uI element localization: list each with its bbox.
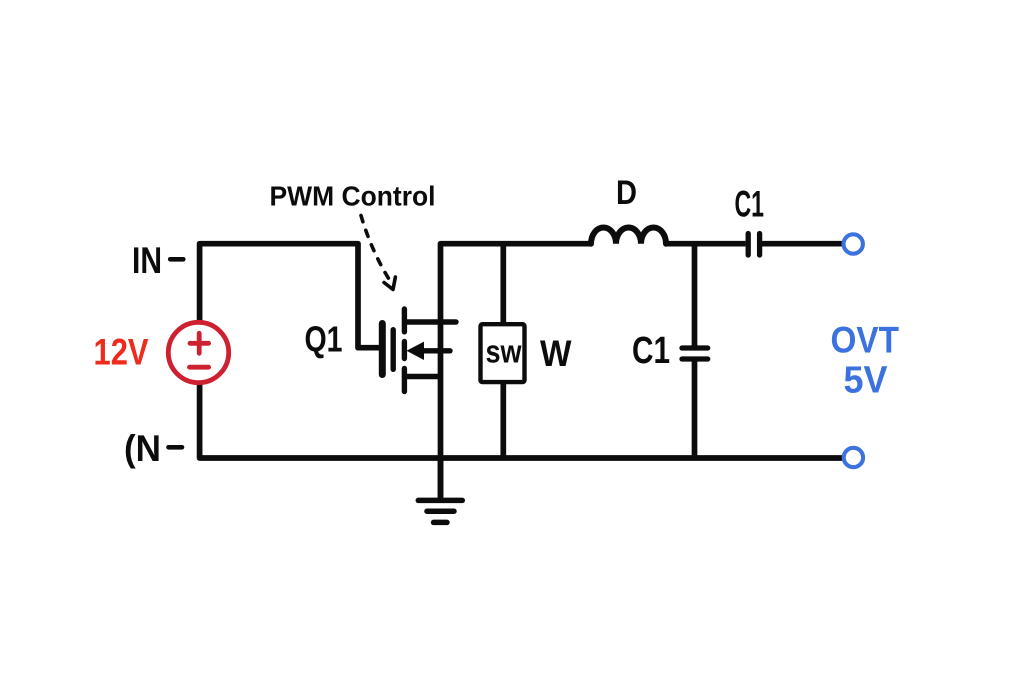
Q1 drain lead bbox=[406, 319, 456, 324]
wire SW branch top bbox=[500, 244, 506, 323]
wire shunt cap bottom bbox=[692, 361, 698, 458]
voltage source V1 bbox=[168, 322, 228, 382]
svg-text:Q1: Q1 bbox=[305, 319, 343, 360]
Q1 channel segment middle bbox=[402, 342, 407, 359]
wire shunt cap top bbox=[692, 244, 698, 346]
GN dash bbox=[169, 445, 183, 450]
svg-text:(N: (N bbox=[124, 428, 161, 469]
Q1 body lead bbox=[420, 348, 450, 353]
Q1 body arrowhead bbox=[407, 342, 425, 360]
Q1 source lead bbox=[406, 374, 438, 379]
svg-text:C1: C1 bbox=[632, 330, 670, 372]
PWM dashed arrow bbox=[361, 216, 390, 281]
Q1 channel segment top bbox=[402, 309, 407, 332]
wire source bottom + bottom rail bbox=[200, 383, 843, 458]
ground bbox=[418, 500, 462, 522]
capacitor C1 shunt (output filter) bbox=[682, 348, 708, 359]
inductor D bbox=[591, 228, 666, 244]
switch SW box bbox=[481, 324, 525, 382]
output terminal top bbox=[844, 234, 863, 253]
Q1 gate plate bbox=[391, 330, 396, 370]
plus sign bbox=[190, 333, 209, 353]
wire SW branch bottom bbox=[500, 384, 506, 459]
svg-text:5V: 5V bbox=[844, 360, 889, 402]
svg-text:C1: C1 bbox=[735, 184, 765, 225]
svg-text:sw: sw bbox=[486, 334, 522, 370]
wire series cap to output terminal bbox=[762, 241, 843, 247]
IN dash bbox=[170, 257, 183, 262]
minus sign bbox=[190, 365, 209, 370]
svg-text:OVT: OVT bbox=[831, 320, 900, 361]
wire inductor to series cap bbox=[666, 241, 746, 247]
wire IN top-left: source top to gate lead bbox=[200, 244, 379, 348]
capacitor C1 series (output coupling) bbox=[748, 234, 759, 256]
svg-text:IN: IN bbox=[132, 240, 162, 281]
PWM arrowhead bbox=[384, 277, 395, 290]
svg-text:D: D bbox=[616, 174, 637, 212]
wire drain vertical + top rail to inductor bbox=[441, 244, 592, 500]
output terminal bottom bbox=[844, 448, 863, 467]
Q1 gate bar bbox=[379, 324, 386, 375]
Q1 channel segment bottom bbox=[402, 369, 407, 392]
wire ground stub bbox=[438, 458, 444, 499]
transistor Q1 (MOSFET) bbox=[382, 309, 456, 392]
svg-text:PWM Control: PWM Control bbox=[270, 181, 436, 212]
svg-text:W: W bbox=[540, 333, 572, 374]
svg-text:12V: 12V bbox=[94, 332, 149, 373]
